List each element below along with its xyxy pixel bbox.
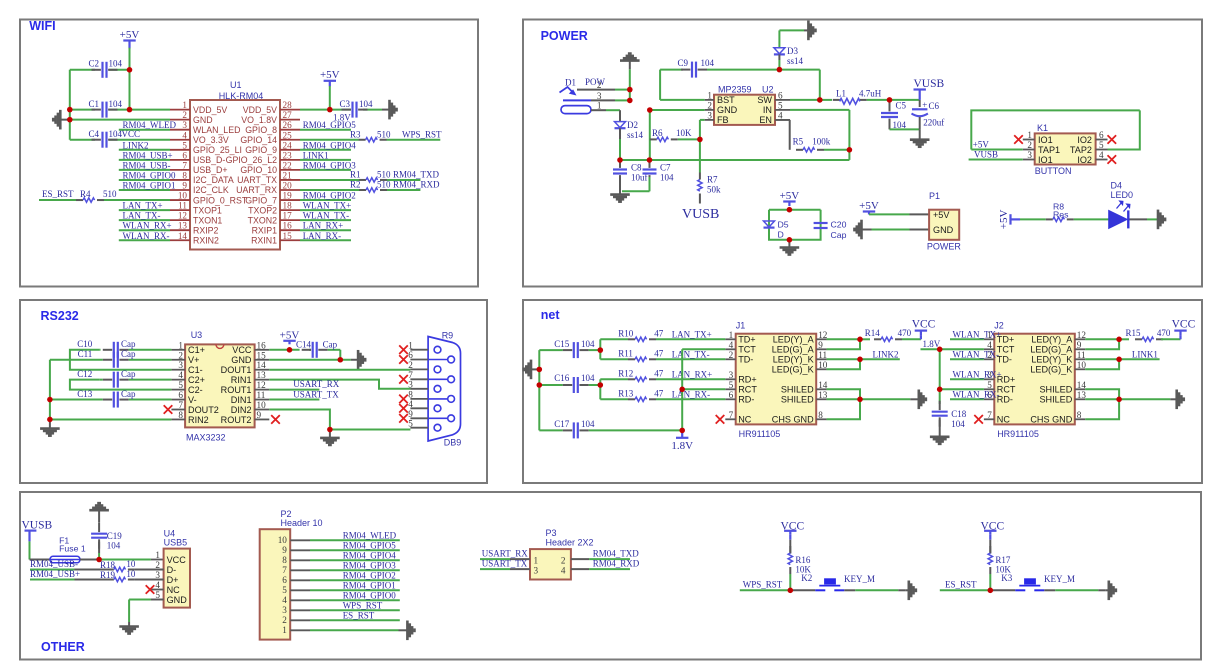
svg-text:NC: NC [167, 585, 181, 595]
svg-text:1: 1 [597, 101, 602, 111]
svg-text:FB: FB [717, 115, 729, 125]
svg-text:6: 6 [778, 90, 783, 100]
wire fuse row [30, 559, 51, 561]
wire P1 +5V [869, 213, 910, 215]
svg-text:+5V: +5V [998, 210, 1010, 230]
svg-text:11: 11 [257, 390, 266, 400]
svg-text:WLAN_TX-: WLAN_TX- [953, 350, 1000, 360]
svg-text:13: 13 [178, 221, 188, 231]
svg-text:LED(Y)_A: LED(Y)_A [773, 335, 815, 345]
svg-text:R9: R9 [442, 330, 454, 340]
U1 pin 13 stub [170, 229, 190, 231]
capacitor C7 [649, 160, 651, 166]
svg-text:4: 4 [182, 130, 187, 140]
node J2 1.8V junction [937, 347, 943, 353]
node GND row junction [338, 357, 344, 363]
capacitor C9 [681, 69, 690, 71]
svg-text:GPIO_26_L2: GPIO_26_L2 [226, 155, 277, 165]
svg-text:WIFI: WIFI [29, 19, 55, 33]
wire LAN_RX+ row [656, 378, 725, 380]
node RCT junction [679, 387, 685, 393]
svg-text:I2C_DATA: I2C_DATA [193, 175, 234, 185]
wire jack pin2 [577, 89, 615, 91]
svg-text:LAN_TX+: LAN_TX+ [672, 330, 712, 340]
svg-text:RM04_WLED: RM04_WLED [343, 531, 397, 541]
resistor R19 [107, 579, 114, 581]
no-connect X J1 pin7 [716, 415, 725, 424]
svg-text:RD+: RD+ [738, 375, 756, 385]
svg-text:LINK2: LINK2 [873, 349, 899, 359]
U1 pin 1 stub [170, 109, 190, 111]
svg-text:USB5: USB5 [164, 538, 188, 548]
wire EN to R5 [775, 119, 790, 121]
svg-text:C15: C15 [554, 339, 570, 349]
svg-text:Res: Res [1053, 209, 1069, 219]
svg-text:TXON1: TXON1 [193, 215, 222, 225]
DB9 pin 4 stub [410, 407, 428, 409]
svg-text:1: 1 [282, 625, 287, 635]
svg-text:3: 3 [182, 120, 187, 130]
wire U1 pin 18 row [300, 209, 351, 211]
svg-text:I2C_CLK: I2C_CLK [193, 185, 229, 195]
integrated circuit U1 HLK-RM04 [190, 100, 280, 250]
wire J2 1.8V vertical [939, 349, 941, 404]
U1 pin 10 stub [170, 199, 190, 201]
node 1.8V junction [679, 428, 685, 434]
svg-text:RM04_WLED: RM04_WLED [123, 120, 177, 130]
U1 pin 25 stub [280, 139, 300, 141]
wire C14 to GND row [339, 350, 341, 360]
U3 pin 15 stub [255, 359, 270, 361]
ground (J2 shield) [1175, 390, 1178, 410]
U1 pin 22 stub [280, 169, 300, 171]
svg-text:RXIP1: RXIP1 [252, 225, 278, 235]
svg-text:2: 2 [707, 100, 712, 110]
ground (above jack) [620, 59, 640, 62]
wire P2 pin 9 row [310, 549, 400, 551]
U1 pin 8 stub [170, 179, 190, 181]
ground (LED row) [1157, 210, 1160, 230]
svg-text:6: 6 [408, 350, 413, 360]
svg-text:RM04_GPIO4: RM04_GPIO4 [343, 551, 397, 561]
svg-text:7: 7 [987, 410, 992, 420]
svg-text:C11: C11 [78, 349, 93, 359]
svg-text:KEY_M: KEY_M [844, 574, 875, 584]
svg-text:LAN_RX-: LAN_RX- [672, 390, 711, 400]
svg-text:LAN_TX+: LAN_TX+ [123, 201, 163, 211]
wire key row right [844, 589, 855, 591]
node key junction [988, 588, 994, 594]
svg-text:104: 104 [660, 173, 674, 183]
wire P2 pin 3 row [310, 609, 400, 611]
P2 pin 5 stub [290, 589, 310, 591]
resistor R13 [628, 398, 635, 400]
node R14 junction [857, 337, 863, 343]
svg-text:28: 28 [283, 100, 293, 110]
svg-text:220uf: 220uf [923, 118, 944, 128]
wire SW node [779, 69, 819, 71]
node DIN2/ground junction [327, 427, 333, 433]
section frame RS232 [20, 300, 487, 483]
ground (K2 row) [905, 589, 909, 591]
J1 pin 1 stub [725, 338, 735, 340]
wire DIN2 to DB9 pin5 [269, 410, 410, 430]
svg-text:Cap: Cap [831, 230, 847, 240]
node LINK2 junction [857, 357, 863, 363]
wire R8 to LED [1074, 218, 1109, 220]
no-connect X K1 pin6 [1108, 135, 1117, 144]
U1 pin 5 stub [170, 149, 190, 151]
svg-text:C7: C7 [660, 163, 671, 173]
wire +5V to R8 [1020, 218, 1046, 220]
U3 pin 11 stub [255, 399, 270, 401]
svg-text:8: 8 [182, 170, 187, 180]
section frame POWER [523, 20, 1202, 287]
svg-text:OTHER: OTHER [41, 640, 85, 654]
svg-text:23: 23 [283, 150, 293, 160]
J2 pin 14 stub [1075, 388, 1086, 390]
svg-text:5: 5 [729, 380, 734, 390]
U1 pin 12 stub [170, 219, 190, 221]
K1 pin 4 stub [1096, 159, 1108, 161]
wire P3 pin3 [480, 568, 510, 570]
svg-text:Cap: Cap [323, 340, 338, 350]
resistor R5 [796, 149, 803, 151]
svg-text:RM04_GPIO5: RM04_GPIO5 [343, 541, 397, 551]
node C19 junction [96, 557, 102, 563]
resistor R4 [76, 199, 83, 201]
svg-text:3: 3 [597, 91, 602, 101]
wire P2 pin1 row [310, 629, 399, 631]
svg-text:10: 10 [126, 569, 135, 579]
svg-text:GPIO_10: GPIO_10 [240, 165, 277, 175]
svg-text:D3: D3 [787, 46, 798, 56]
U1 pin 9 stub [170, 189, 190, 191]
U1 pin 16 stub [280, 229, 300, 231]
U2 pin 3 stub [705, 119, 714, 121]
svg-text:POWER: POWER [927, 242, 962, 252]
U3 pin 14 stub [255, 369, 270, 371]
wire P2 pin 7 row [310, 569, 400, 571]
node C2/+5V junction [127, 67, 133, 73]
no-connect X K1 pin1 [1014, 135, 1023, 144]
P2 pin 3 stub [290, 609, 310, 611]
svg-text:VUSB: VUSB [914, 78, 945, 90]
svg-text:GND: GND [167, 595, 188, 605]
svg-text:RM04_GPIO3: RM04_GPIO3 [303, 160, 357, 170]
U1 pin 14 stub [170, 239, 190, 241]
P2 pin 4 stub [290, 599, 310, 601]
power VCC (J1) [915, 330, 927, 332]
svg-text:IO2: IO2 [1077, 155, 1092, 165]
P2 pin 6 stub [290, 579, 310, 581]
svg-text:18: 18 [283, 201, 293, 211]
svg-text:GND: GND [933, 225, 954, 235]
P2 pin 9 stub [290, 549, 310, 551]
svg-text:5: 5 [987, 380, 992, 390]
J2 pin 4 stub [984, 348, 994, 350]
svg-text:C2+: C2+ [188, 375, 205, 385]
svg-text:D: D [778, 230, 784, 240]
node +5V junction [787, 207, 793, 213]
ground (C3 right) [382, 109, 390, 111]
svg-text:14: 14 [1077, 380, 1087, 390]
svg-text:C6: C6 [929, 101, 940, 111]
svg-text:8: 8 [178, 410, 183, 420]
wire jack ground vertical [629, 69, 631, 100]
svg-text:47: 47 [654, 348, 664, 358]
svg-text:SHILED: SHILED [781, 385, 814, 395]
J2 pin 11 stub [1075, 358, 1086, 360]
U3 pin 7 stub [171, 409, 185, 411]
svg-text:SHILED: SHILED [1039, 385, 1072, 395]
svg-text:3: 3 [1027, 150, 1032, 160]
svg-text:4.7uH: 4.7uH [859, 88, 882, 98]
svg-text:R10: R10 [618, 328, 634, 338]
U1 pin 11 stub [170, 209, 190, 211]
DB9 pin 7 stub [410, 378, 428, 380]
wire SW to L1 [820, 99, 832, 101]
U4 pin 2 stub [151, 569, 164, 571]
wire U1 pin 16 row [300, 229, 351, 231]
no-connect X U3 pin7 [164, 405, 173, 414]
svg-text:WLAN_RX+: WLAN_RX+ [123, 221, 172, 231]
svg-text:C10: C10 [77, 339, 93, 349]
resistor R15 [1135, 338, 1142, 340]
svg-text:V+: V+ [188, 355, 199, 365]
svg-text:U3: U3 [191, 330, 203, 340]
wire J2 RCT row [940, 388, 984, 390]
svg-text:12: 12 [257, 380, 267, 390]
U1 pin 23 stub [280, 159, 300, 161]
K1 pin 5 stub [1096, 149, 1108, 151]
ground (P1) [860, 220, 863, 240]
K1 pin 1 stub [1023, 139, 1035, 141]
svg-text:1: 1 [707, 90, 712, 100]
U1 pin 17 stub [280, 219, 300, 221]
U3 pin 3 stub [171, 369, 185, 371]
svg-text:LAN_TX-: LAN_TX- [672, 350, 710, 360]
svg-text:6: 6 [178, 390, 183, 400]
wire R12/R13 vertical [599, 379, 601, 399]
svg-text:R19: R19 [100, 570, 116, 580]
svg-text:7: 7 [282, 565, 287, 575]
svg-text:LAN_RX-: LAN_RX- [303, 231, 342, 241]
P2 pin 8 stub [290, 559, 310, 561]
node RIN2 junction [47, 417, 53, 423]
svg-text:C2-: C2- [188, 385, 203, 395]
wire jack pin1 to D2 [591, 109, 606, 111]
svg-text:WLAN_TX-: WLAN_TX- [303, 211, 350, 221]
svg-text:2: 2 [561, 556, 566, 566]
svg-text:16: 16 [257, 340, 267, 350]
node input rail left junction [617, 157, 623, 163]
svg-text:LED(G)_K: LED(G)_K [1030, 365, 1072, 375]
DB9 pin 7 circle [428, 378, 448, 380]
section frame OTHER [20, 492, 1201, 660]
svg-text:4: 4 [408, 399, 413, 409]
svg-text:C19: C19 [107, 531, 123, 541]
svg-text:ES_RST: ES_RST [42, 189, 74, 199]
capacitor C14 [302, 349, 311, 351]
capacitor C6 electrolytic [919, 100, 921, 107]
wire LAN_RX- row [656, 398, 725, 400]
wire WLAN_RX- row [950, 398, 984, 400]
section frame WIFI [20, 20, 478, 287]
svg-text:104: 104 [109, 59, 123, 69]
svg-text:7: 7 [182, 160, 187, 170]
wire RIN1 to DB9 pin3 [269, 380, 410, 389]
svg-text:C8: C8 [631, 163, 642, 173]
svg-text:RM04_USB-: RM04_USB- [30, 559, 78, 569]
svg-text:13: 13 [1077, 390, 1087, 400]
svg-text:1: 1 [1027, 130, 1032, 140]
svg-text:27: 27 [283, 110, 293, 120]
P2 pin 1 stub [290, 629, 310, 631]
svg-text:R7: R7 [707, 175, 718, 185]
wire C9 left vertical [659, 70, 661, 100]
svg-text:RCT: RCT [997, 385, 1016, 395]
svg-text:3: 3 [408, 380, 413, 390]
svg-text:8: 8 [818, 410, 823, 420]
svg-text:510: 510 [103, 189, 117, 199]
wire J1 pin9 jog [827, 339, 860, 349]
svg-text:6: 6 [282, 575, 287, 585]
svg-text:K3: K3 [1001, 573, 1012, 583]
wire key row left [940, 589, 991, 591]
svg-text:DIN2: DIN2 [231, 405, 252, 415]
svg-text:RM04_TXD: RM04_TXD [593, 549, 640, 559]
capacitor C5 [889, 100, 891, 109]
svg-text:C1-: C1- [188, 365, 203, 375]
svg-text:IN: IN [763, 105, 772, 115]
U1 pin 28 stub [280, 109, 300, 111]
wire C1 row to U1 pin1 [70, 109, 95, 111]
svg-text:RIN1: RIN1 [231, 375, 252, 385]
svg-text:L1: L1 [836, 89, 846, 99]
svg-text:C2: C2 [88, 59, 99, 69]
node C1/+5V junction [127, 107, 133, 113]
svg-text:2: 2 [1027, 140, 1032, 150]
U1 pin 2 stub [170, 119, 190, 121]
U1 pin 21 stub [280, 179, 300, 181]
svg-text:ES_RST: ES_RST [343, 611, 375, 621]
wire left vertical C2-C4 [69, 70, 71, 140]
wire P3 pin4 [571, 568, 589, 570]
wire C12 loop [70, 380, 171, 390]
svg-text:EN: EN [759, 115, 772, 125]
J2 pin 6 stub [984, 398, 994, 400]
svg-text:5: 5 [178, 380, 183, 390]
capacitor C17 [539, 429, 563, 431]
wire GND net vertical [649, 110, 651, 160]
svg-text:RM04_GPIO1: RM04_GPIO1 [343, 581, 396, 591]
svg-text:RM04_GPIO4: RM04_GPIO4 [303, 140, 357, 150]
node C1 left junction [67, 107, 73, 113]
svg-text:6: 6 [1099, 130, 1104, 140]
wire VCC to R16 [789, 540, 791, 554]
no-connect X J2 pin7 [974, 415, 983, 424]
svg-text:21: 21 [283, 170, 293, 180]
J2 pin 10 stub [1075, 368, 1086, 370]
svg-text:16: 16 [283, 221, 293, 231]
U3 pin 12 stub [255, 389, 270, 391]
svg-text:C13: C13 [77, 389, 93, 399]
svg-text:14: 14 [818, 380, 828, 390]
svg-text:Header 10: Header 10 [281, 518, 323, 528]
U1 pin 6 stub [170, 159, 190, 161]
svg-text:4: 4 [1099, 150, 1104, 160]
J2 pin 3 stub [984, 378, 994, 380]
wire WLAN_RX+ row [950, 378, 984, 380]
wire R17 to key row [989, 574, 991, 590]
DB9 pin 1 stub [410, 349, 428, 351]
svg-text:LED(G)_A: LED(G)_A [772, 345, 815, 355]
wire J1 pin10 jog [827, 359, 860, 369]
svg-text:510: 510 [377, 170, 391, 180]
svg-text:HR911105: HR911105 [739, 429, 781, 439]
DB9 pin 6 stub [410, 359, 428, 361]
svg-text:LAN_RX+: LAN_RX+ [303, 221, 344, 231]
wire pin20 row [300, 189, 359, 191]
svg-text:P3: P3 [546, 528, 557, 538]
svg-text:104: 104 [581, 339, 595, 349]
U3 pin 8 stub [171, 418, 185, 420]
svg-text:IO1: IO1 [1038, 135, 1053, 145]
svg-text:ROUT2: ROUT2 [221, 415, 252, 425]
U1 pin 20 stub [280, 189, 300, 191]
wire D2 to input rail [619, 139, 621, 160]
J1 pin 5 stub [725, 388, 735, 390]
DB9 pin 6 circle [428, 359, 448, 361]
svg-text:BUTTON: BUTTON [1035, 166, 1072, 176]
svg-text:11: 11 [1077, 350, 1086, 360]
ground (K3 row) [1105, 589, 1109, 591]
svg-text:C9: C9 [677, 58, 688, 68]
U3 pin 16 stub [255, 349, 270, 351]
svg-text:4: 4 [155, 580, 160, 590]
wire U1 pin 23 row [300, 159, 351, 161]
svg-text:10: 10 [278, 535, 288, 545]
svg-text:5: 5 [408, 418, 413, 428]
wire U1 pin 12 row [119, 219, 170, 221]
svg-text:24: 24 [283, 140, 293, 150]
svg-text:IO2: IO2 [1077, 135, 1092, 145]
wire K1 pin2 / +5V loop [971, 110, 1140, 149]
svg-text:C1+: C1+ [188, 345, 205, 355]
ground (below DB9 wire) [329, 430, 331, 438]
DB9 pin 4 circle [434, 405, 441, 412]
wire J2 pin9 jog [1085, 339, 1119, 349]
U2 pin 4 stub [775, 119, 790, 121]
svg-text:WLAN_RX-: WLAN_RX- [953, 390, 1000, 400]
svg-text:5: 5 [182, 140, 187, 150]
svg-text:SW: SW [757, 95, 772, 105]
wire D5/C20 loop [769, 210, 821, 240]
wire input rail [620, 159, 849, 161]
svg-text:GPIO_7: GPIO_7 [245, 195, 277, 205]
wire J1 pin13 row [827, 398, 860, 400]
svg-text:D-: D- [167, 565, 177, 575]
svg-text:100k: 100k [812, 137, 831, 147]
K1 pin 2 stub [1023, 149, 1035, 151]
wire FB node [699, 120, 701, 139]
J1 pin 13 stub [816, 398, 827, 400]
resistor R2 [359, 189, 366, 191]
svg-text:RXIP2: RXIP2 [193, 225, 219, 235]
U3 pin 4 stub [171, 379, 185, 381]
svg-text:104: 104 [581, 373, 595, 383]
